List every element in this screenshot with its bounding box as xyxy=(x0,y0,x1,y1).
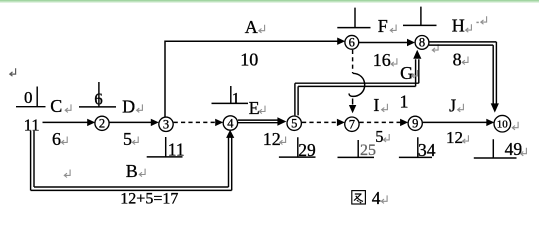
node 4 xyxy=(223,116,237,131)
svg-text:4: 4 xyxy=(372,188,381,207)
svg-text:11: 11 xyxy=(168,139,185,159)
svg-text:C: C xyxy=(50,96,62,116)
activity E double-line arrow node4 to node5 xyxy=(238,117,286,125)
pilcrow after 16 xyxy=(391,58,397,66)
pilcrow after 6 xyxy=(61,137,67,145)
node 5 xyxy=(287,116,301,131)
svg-text:6: 6 xyxy=(94,90,103,109)
node 3 xyxy=(159,117,173,132)
svg-text:A: A xyxy=(245,17,258,37)
tick mark above node 1 with value 0 xyxy=(16,87,46,107)
tick mark below node 3 with value 11 xyxy=(147,137,183,157)
svg-text:8: 8 xyxy=(419,36,425,50)
pilcrow after node 8 xyxy=(432,44,438,52)
svg-text:J: J xyxy=(449,95,456,115)
svg-text:5: 5 xyxy=(375,127,383,146)
svg-text:1: 1 xyxy=(400,92,409,112)
pilcrow after 12 xyxy=(280,137,286,145)
pilcrow after C xyxy=(65,104,71,112)
pilcrow after caption xyxy=(381,195,387,203)
hop arc over double line xyxy=(349,73,365,96)
tick mark below node 5 with value 29 xyxy=(279,137,316,157)
svg-text:10: 10 xyxy=(497,119,509,131)
lone paragraph mark top-left xyxy=(10,68,16,76)
svg-text:F: F xyxy=(378,16,388,36)
svg-text:0: 0 xyxy=(24,88,33,107)
lone pilcrow inside B loop xyxy=(64,170,70,178)
wire arrow node2 to node3 (activity D duration 5) xyxy=(109,119,159,126)
pilcrow after E xyxy=(259,106,265,114)
pilcrow after 12 xyxy=(463,135,469,143)
svg-text:3: 3 xyxy=(163,118,169,132)
svg-text:I: I xyxy=(373,95,379,115)
tick mark below node 10 with value 49 xyxy=(474,139,517,158)
pilcrow after F xyxy=(390,25,396,33)
wire arrow node1 to node2 (activity with duration 6) xyxy=(43,119,96,126)
svg-text:12: 12 xyxy=(446,128,463,147)
svg-text:6: 6 xyxy=(349,36,355,50)
pilcrow after I xyxy=(382,104,388,112)
svg-text:29: 29 xyxy=(298,140,316,160)
svg-text:7: 7 xyxy=(349,118,355,132)
dashed dummy node6 to node7 with hop arc xyxy=(349,50,365,113)
tick mark above node 2 with value 6 xyxy=(79,82,116,107)
svg-text:8: 8 xyxy=(453,50,462,70)
activity F arrow node6 to node8 xyxy=(359,39,415,46)
tick mark above node 8 xyxy=(403,7,437,26)
tick mark above node 6 xyxy=(337,8,370,28)
svg-text:6: 6 xyxy=(52,129,61,149)
activity J arrow node9 to node10 xyxy=(423,119,495,126)
svg-text:25: 25 xyxy=(360,142,376,159)
arrowhead of H into node10 xyxy=(491,103,499,112)
activity A wire: up from node3 then right to node6 xyxy=(165,38,345,117)
svg-text:34: 34 xyxy=(418,140,436,160)
activity H double-line path: node8 right then down into node10 xyxy=(429,42,496,104)
pilcrow after 5 xyxy=(383,134,389,142)
arrowhead of B into node4 xyxy=(226,130,234,138)
green top border line xyxy=(0,0,539,2)
pilcrow after B xyxy=(139,169,145,177)
node 7 xyxy=(345,117,359,132)
svg-text:5: 5 xyxy=(123,129,132,149)
svg-text:2: 2 xyxy=(99,117,105,131)
pilcrow after 49 xyxy=(521,148,527,156)
node 2 xyxy=(95,116,109,130)
pilcrow after 5 xyxy=(132,137,138,145)
tick mark below node 9 with value 34 xyxy=(399,137,432,157)
svg-text:E: E xyxy=(249,98,260,118)
svg-text:11: 11 xyxy=(24,116,40,135)
node 8 xyxy=(415,36,429,50)
pilcrow after G xyxy=(412,70,418,78)
svg-text:H: H xyxy=(452,15,465,35)
pilcrow after J xyxy=(458,104,464,112)
svg-text:49: 49 xyxy=(505,139,523,159)
svg-text:5: 5 xyxy=(291,117,297,131)
dashed dummy node5 to node7 xyxy=(302,119,345,126)
activity B double-line path from node1 down, right, up into node4 xyxy=(31,131,232,191)
arrowhead of G into node8 xyxy=(413,50,421,59)
dashed dummy node3 to node4 xyxy=(174,119,224,126)
tick mark below node 7 with faint value 25 xyxy=(338,140,375,157)
svg-text:B: B xyxy=(126,161,138,181)
node 6 xyxy=(345,35,359,49)
node 10 xyxy=(494,115,511,132)
activity G double-line path: node5 up, right, up into node8 xyxy=(295,59,419,115)
svg-text:1: 1 xyxy=(232,90,240,107)
node 9 xyxy=(408,116,422,130)
pilcrow after 8 xyxy=(462,57,468,65)
svg-text:12+5=17: 12+5=17 xyxy=(120,191,178,207)
svg-text:G: G xyxy=(400,63,413,83)
tick mark above node 4 with value 1 xyxy=(212,86,249,103)
svg-text:16: 16 xyxy=(373,50,391,70)
pilcrow after node 10 xyxy=(512,122,518,130)
pilcrow after A xyxy=(259,25,265,33)
svg-text:10: 10 xyxy=(240,50,258,70)
pilcrow after H xyxy=(466,24,472,32)
svg-text:12: 12 xyxy=(263,129,281,149)
svg-text:9: 9 xyxy=(412,117,418,131)
svg-text:D: D xyxy=(122,97,135,117)
stray dash and pilcrow above right of H xyxy=(476,21,478,23)
caption: Chinese character tu (figure) drawn as paths xyxy=(352,191,366,204)
svg-text:4: 4 xyxy=(227,116,234,130)
pilcrow after D xyxy=(137,104,143,112)
dashed activity I node7 to node9 xyxy=(360,119,409,126)
